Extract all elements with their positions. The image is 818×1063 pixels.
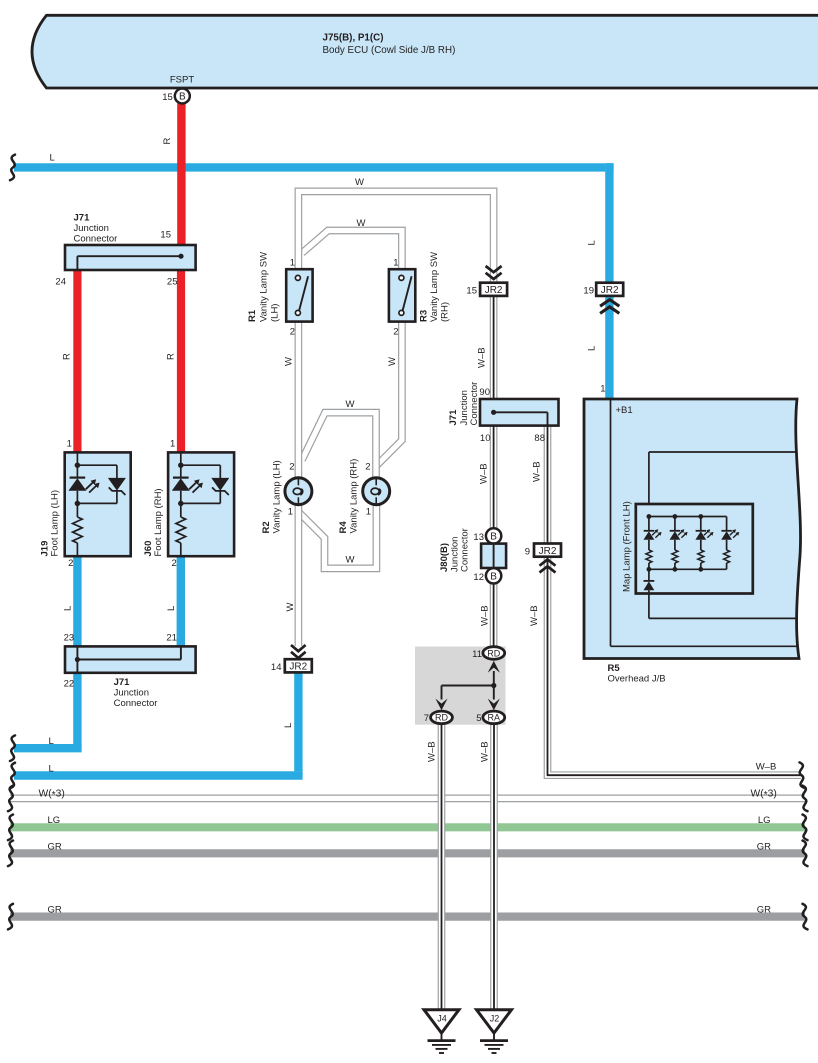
svg-text:5: 5 [476,713,481,724]
svg-text:21: 21 [166,632,177,643]
svg-text:R4: R4 [338,521,349,534]
svg-text:23: 23 [64,632,75,643]
svg-text:RA: RA [488,713,501,723]
svg-text:(LH): (LH) [270,304,281,322]
svg-text:J71: J71 [114,677,131,688]
svg-text:Vanity Lamp SW: Vanity Lamp SW [259,252,270,322]
svg-text:R1: R1 [247,309,258,322]
svg-text:9: 9 [525,546,530,557]
svg-text:B: B [179,92,186,103]
svg-text:W–B: W–B [529,605,540,626]
svg-text:JR2: JR2 [289,662,307,673]
svg-text:Vanity Lamp (RH): Vanity Lamp (RH) [349,459,360,534]
svg-text:Overhead J/B: Overhead J/B [608,674,666,685]
svg-text:J4: J4 [437,1013,447,1023]
svg-text:Connector: Connector [460,528,471,572]
svg-text:Connector: Connector [114,698,158,709]
svg-text:B: B [490,532,497,543]
svg-text:15: 15 [160,230,171,241]
svg-text:Body ECU (Cowl Side J/B RH): Body ECU (Cowl Side J/B RH) [323,45,456,56]
svg-text:W–B: W–B [480,741,491,762]
svg-text:Vanity Lamp (LH): Vanity Lamp (LH) [272,460,283,533]
svg-text:1: 1 [366,507,371,518]
svg-text:88: 88 [534,433,545,444]
svg-text:90: 90 [479,387,490,398]
svg-text:L: L [587,346,598,351]
svg-text:W: W [284,357,295,366]
svg-text:Junction: Junction [114,688,149,699]
svg-text:W–B: W–B [532,461,543,482]
svg-text:15: 15 [466,286,477,297]
svg-text:W(*3): W(*3) [39,789,65,802]
svg-text:J71: J71 [74,213,91,224]
svg-text:R: R [162,138,173,145]
svg-text:+B1: +B1 [616,405,633,416]
svg-text:L: L [62,606,73,611]
svg-text:W: W [387,357,398,366]
svg-text:W(*3): W(*3) [751,789,777,802]
svg-text:W–B: W–B [427,741,438,762]
svg-text:R2: R2 [261,521,272,533]
svg-text:L: L [166,606,177,611]
svg-text:B: B [490,571,497,582]
svg-text:2: 2 [393,326,398,337]
svg-text:R3: R3 [419,310,430,322]
svg-text:12: 12 [473,572,484,583]
svg-text:RD: RD [487,648,500,658]
svg-text:2: 2 [289,462,294,473]
svg-text:Junction: Junction [74,223,109,234]
svg-text:L: L [587,240,598,245]
svg-text:RD: RD [435,713,448,723]
svg-text:J71: J71 [448,409,459,426]
svg-text:Foot Lamp (LH): Foot Lamp (LH) [50,490,61,557]
svg-text:2: 2 [68,558,73,569]
svg-text:1: 1 [67,438,72,449]
svg-text:R5: R5 [608,663,621,674]
svg-text:R: R [166,353,177,360]
svg-text:13: 13 [473,532,484,543]
svg-text:1: 1 [288,507,293,518]
svg-text:15: 15 [162,92,173,103]
svg-text:11: 11 [472,649,482,660]
svg-text:J75(B), P1(C): J75(B), P1(C) [323,33,384,44]
svg-text:W: W [285,603,296,612]
svg-text:10: 10 [480,433,491,444]
svg-text:L: L [49,764,54,775]
svg-text:W: W [346,555,355,566]
svg-text:JR2: JR2 [485,285,503,296]
svg-text:1: 1 [600,384,605,395]
svg-text:W–B: W–B [479,463,490,484]
svg-text:GR: GR [757,905,771,916]
svg-text:GR: GR [48,842,62,853]
svg-text:1: 1 [290,258,295,269]
svg-text:W–B: W–B [477,347,488,368]
svg-text:FSPT: FSPT [170,75,194,86]
svg-text:W: W [357,218,366,229]
svg-text:W: W [355,177,364,188]
svg-text:2: 2 [365,462,370,473]
svg-text:J2: J2 [490,1013,500,1023]
svg-text:7: 7 [424,713,429,724]
svg-text:2: 2 [290,326,295,337]
svg-text:LG: LG [48,815,61,826]
svg-text:W–B: W–B [756,762,777,773]
svg-text:19: 19 [583,286,594,297]
svg-text:L: L [283,723,294,728]
svg-text:GR: GR [757,842,771,853]
svg-text:W–B: W–B [480,605,491,626]
svg-text:1: 1 [393,258,398,269]
svg-text:1: 1 [170,438,175,449]
svg-text:L: L [49,736,54,747]
svg-text:L: L [50,153,55,164]
svg-text:22: 22 [64,679,75,690]
svg-text:Map Lamp (Front LH): Map Lamp (Front LH) [622,501,633,592]
svg-text:W: W [346,399,355,410]
svg-text:LG: LG [758,815,771,826]
svg-text:2: 2 [172,558,177,569]
svg-text:R: R [62,353,73,360]
svg-text:JR2: JR2 [539,546,557,557]
svg-text:JR2: JR2 [601,285,619,296]
svg-text:24: 24 [55,277,66,288]
svg-text:Foot Lamp (RH): Foot Lamp (RH) [153,488,164,556]
svg-text:J80(B): J80(B) [439,543,450,572]
svg-text:25: 25 [167,277,178,288]
svg-text:Connector: Connector [469,382,480,426]
svg-text:Vanity Lamp SW: Vanity Lamp SW [429,252,440,322]
svg-text:(RH): (RH) [440,302,451,322]
svg-text:GR: GR [48,905,62,916]
svg-text:14: 14 [271,662,282,673]
svg-text:Connector: Connector [74,234,118,245]
